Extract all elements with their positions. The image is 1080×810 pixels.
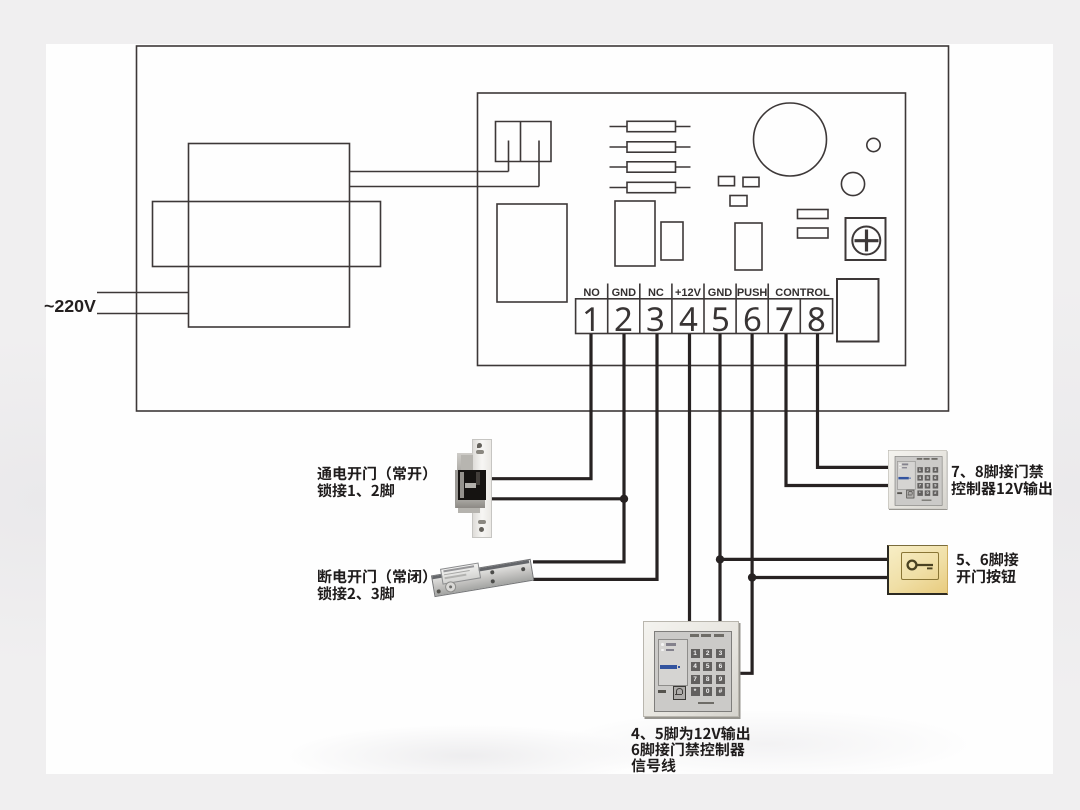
wire branch pin6 to exit button xyxy=(752,576,888,579)
diode D1 xyxy=(798,210,829,219)
wire pin8 to access keypad xyxy=(818,334,889,467)
diode D2 xyxy=(798,228,829,238)
resistor R1 xyxy=(610,121,691,131)
wire pin5 to keypad controller xyxy=(718,334,721,622)
terminal pin number 3 xyxy=(646,307,666,332)
potentiometer VR1 xyxy=(846,218,886,260)
terminal pin number 5 xyxy=(711,307,731,332)
wire pin2 to strike and bolt lock xyxy=(533,334,624,562)
terminal label GND xyxy=(660,287,780,299)
transformer T1 winding (horizontal) xyxy=(153,202,381,267)
IC U3 xyxy=(735,223,762,270)
relay K1 xyxy=(497,204,567,302)
wire pin4 to keypad controller xyxy=(688,334,691,622)
wire ~220V mains pair xyxy=(97,293,189,314)
label: keypad wiring line1 xyxy=(631,725,752,744)
IC U2 xyxy=(661,222,683,260)
wire branch pin2 to strike xyxy=(491,497,625,500)
wire pin3 to bolt lock xyxy=(533,334,657,579)
label: strike lock wiring (line1) xyxy=(317,465,439,484)
connector block J1 xyxy=(496,122,552,162)
label: strike lock wiring (line2) xyxy=(317,482,396,501)
terminal pin number 2 xyxy=(614,307,634,332)
IC U1 xyxy=(615,201,655,266)
label: keypad wiring line2 xyxy=(631,741,746,760)
electric strike lock (photo) xyxy=(455,439,496,537)
terminal pin number 4 xyxy=(679,307,699,332)
wire pin7 to access keypad xyxy=(786,334,889,486)
mounting hole xyxy=(867,138,880,151)
terminal pin number 1 xyxy=(582,307,602,332)
label: exit button wiring line2 xyxy=(956,568,1018,587)
resistor R4 xyxy=(610,182,691,192)
terminal label +12V xyxy=(628,287,748,299)
terminal pin number 7 xyxy=(775,307,795,332)
exit door button xyxy=(887,545,948,596)
junction node pin5 xyxy=(716,555,724,563)
label ~220V xyxy=(44,296,96,317)
junction node pin6 xyxy=(748,573,756,581)
label: keypad wiring line3 xyxy=(631,757,678,776)
access keypad (right) xyxy=(888,450,946,508)
fuse holder F1 xyxy=(837,279,879,342)
capacitor C2 xyxy=(841,172,864,195)
terminal pin number 6 xyxy=(743,307,763,332)
transformer T1 core (vertical) xyxy=(189,144,350,328)
terminal label GND xyxy=(564,287,684,299)
bolt lock (photo) xyxy=(431,559,534,596)
resistor R2 xyxy=(610,142,691,152)
capacitor C1 (large electrolytic) xyxy=(754,103,827,176)
terminal pin number 8 xyxy=(807,307,827,332)
label: access keypad wiring line2 xyxy=(951,480,1054,499)
capacitor C5 xyxy=(730,196,747,207)
PCB board outline xyxy=(478,93,906,366)
wire transformer secondary pair xyxy=(350,172,540,187)
wire pin1 to electric strike xyxy=(491,334,592,479)
label: exit button wiring line1 xyxy=(956,551,1020,570)
capacitor C4 xyxy=(743,177,759,186)
capacitor C3 xyxy=(719,177,735,186)
terminal block TB1 (pins 1-8) xyxy=(576,284,833,334)
junction node pin2 xyxy=(620,495,628,503)
wire branch pin5 to exit button xyxy=(720,558,888,561)
keypad access controller (bottom) xyxy=(643,621,739,717)
power supply enclosure box xyxy=(137,46,949,411)
terminal label CONTROL xyxy=(743,287,863,299)
terminal label NO xyxy=(532,287,652,299)
connector J1 pins xyxy=(509,141,540,187)
label: bolt lock wiring (line1) xyxy=(317,568,439,587)
label: bolt lock wiring (line2) xyxy=(317,585,396,604)
resistor R3 xyxy=(610,162,691,172)
terminal label PUSH xyxy=(692,287,812,299)
terminal label NC xyxy=(596,287,716,299)
wire pin6 to keypad controller signal xyxy=(739,334,753,673)
label: access keypad wiring line1 xyxy=(951,463,1045,482)
